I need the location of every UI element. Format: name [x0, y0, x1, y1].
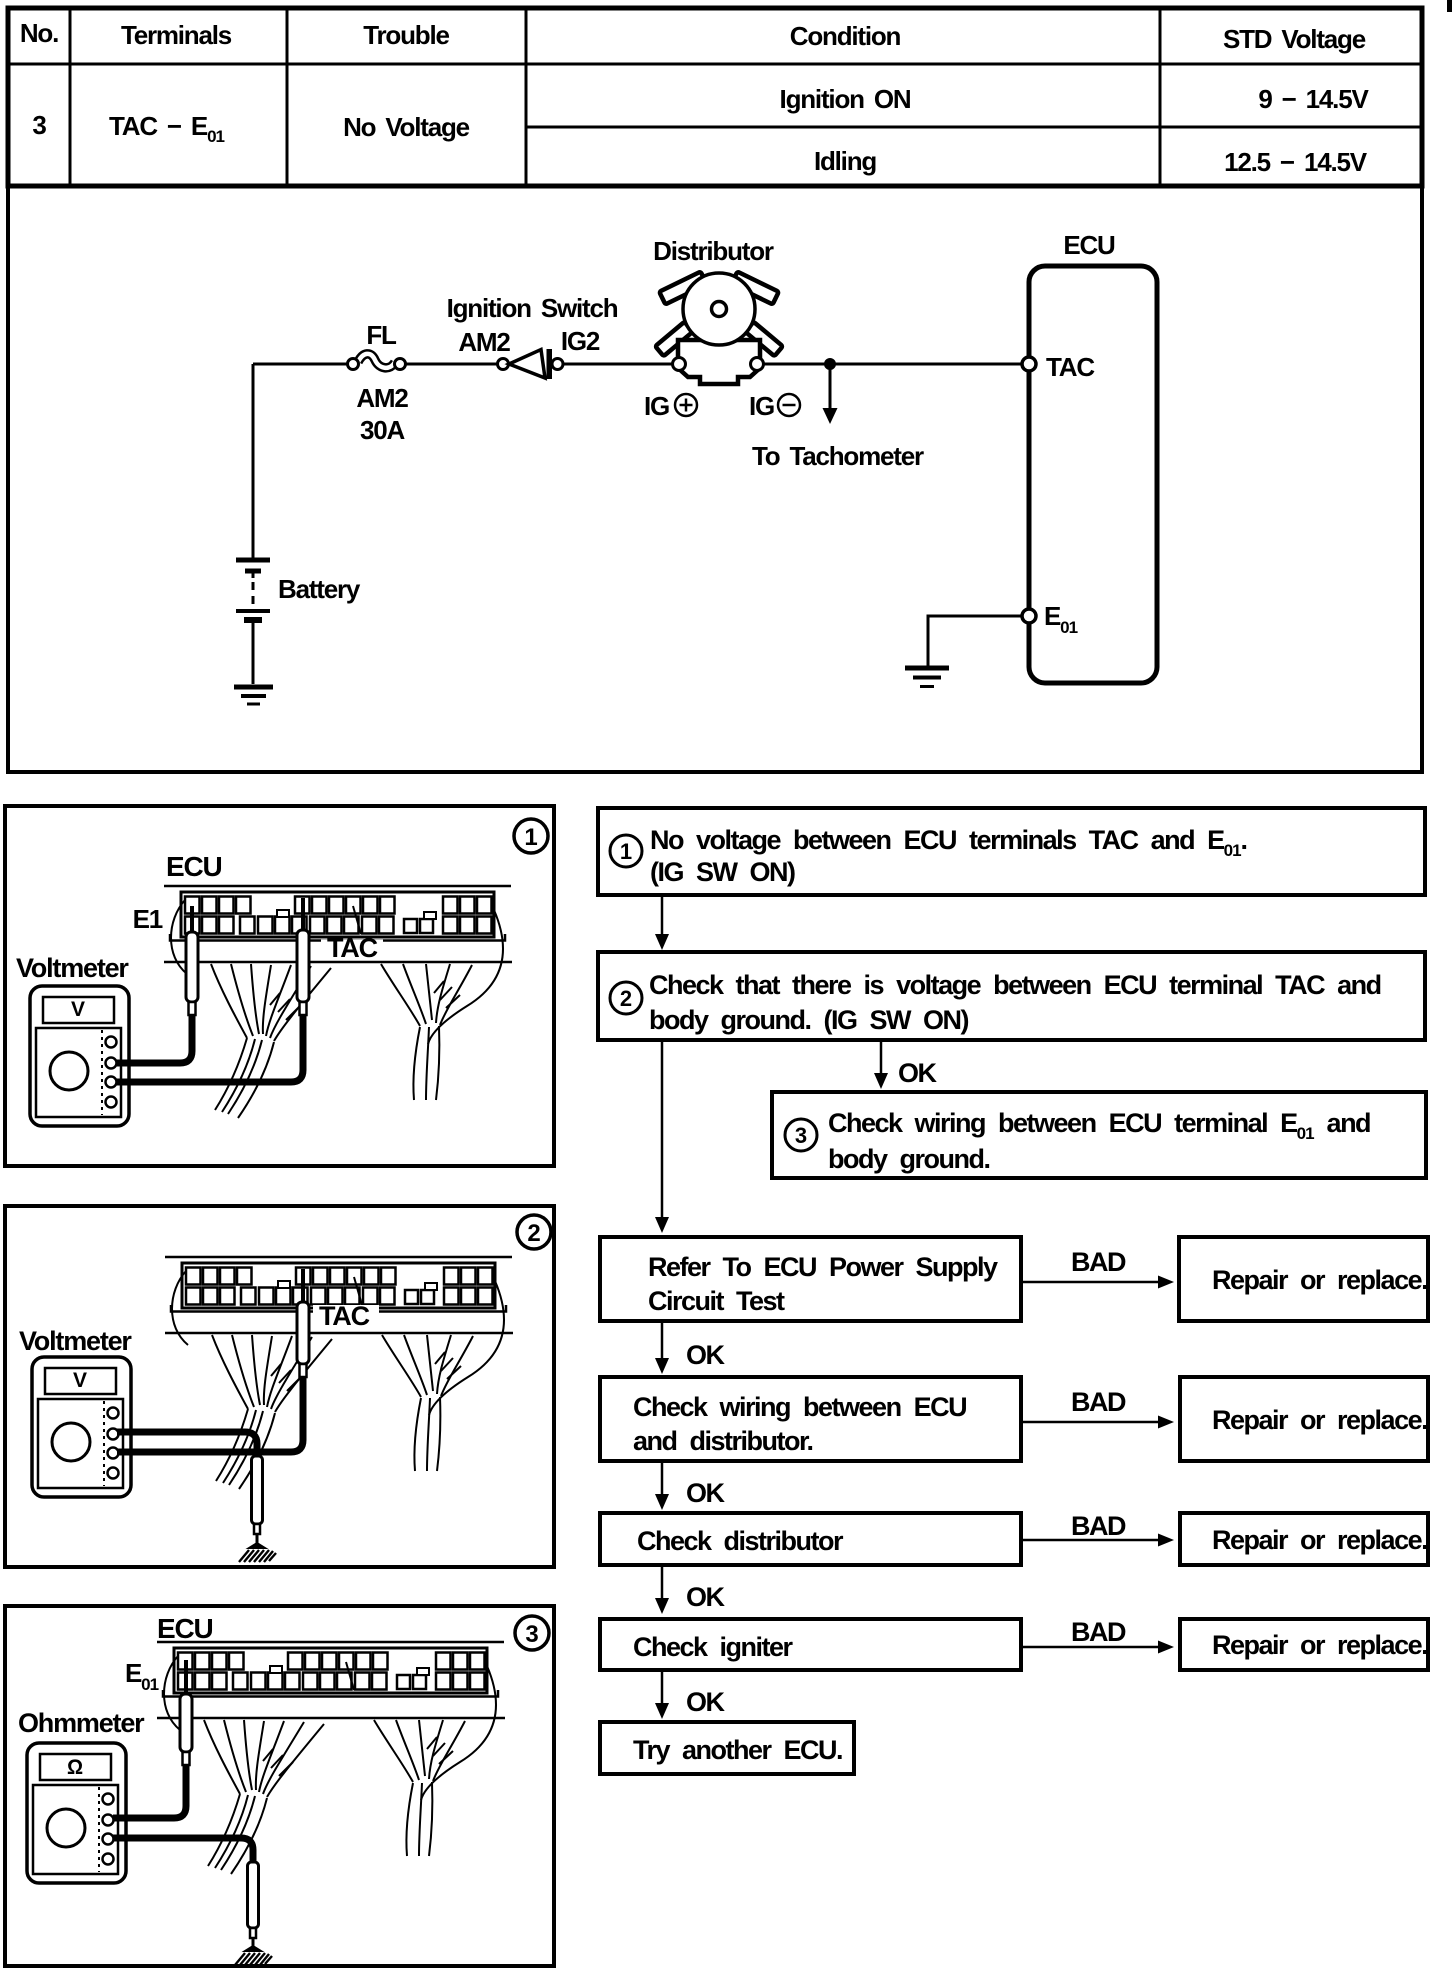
- svg-text:3: 3: [525, 1621, 538, 1648]
- flow box 4 refer: [600, 1237, 1021, 1321]
- circled 3: [515, 1616, 549, 1650]
- flow box 7: [600, 1619, 1021, 1670]
- svg-text:AM2: AM2: [356, 383, 408, 413]
- flow box 2: [598, 952, 1425, 1040]
- svg-text:IG: IG: [749, 391, 774, 421]
- terminal IG-: [751, 358, 764, 371]
- test lead TAC to voltmeter: [117, 1377, 303, 1452]
- page edge mark: [1447, 0, 1452, 12]
- BAD arrow 3: [1021, 1539, 1160, 1542]
- probe TAC: [301, 1269, 305, 1304]
- body ground: [239, 1543, 276, 1562]
- flow box 3: [772, 1092, 1426, 1178]
- arrow box2 to box3: [880, 1040, 883, 1075]
- panel 2 frame: [5, 1206, 554, 1567]
- wire distributor to ECU: [764, 363, 1023, 366]
- svg-text:Ω: Ω: [67, 1756, 83, 1779]
- wing upper-left: [659, 272, 706, 305]
- circled 1: [514, 819, 548, 853]
- svg-text:AM2: AM2: [458, 327, 510, 357]
- body ground: [235, 1946, 272, 1965]
- svg-text:BAD: BAD: [1071, 1247, 1126, 1277]
- svg-text:Repair or replace.: Repair or replace.: [1212, 1525, 1427, 1555]
- flow box 6: [600, 1513, 1021, 1565]
- circled 2: [517, 1215, 551, 1249]
- table outer border: [8, 8, 1422, 186]
- svg-text:IG2: IG2: [561, 326, 600, 356]
- svg-text:FL: FL: [366, 320, 397, 350]
- wire switch to distributor: [563, 363, 674, 366]
- svg-text:Check wiring between ECU termi: Check wiring between ECU terminal E01 an…: [828, 1108, 1370, 1143]
- svg-text:30A: 30A: [360, 415, 406, 445]
- ground probe: [252, 1456, 263, 1524]
- table header row line: [8, 63, 1422, 66]
- svg-text:OK: OK: [686, 1340, 726, 1370]
- svg-text:V: V: [71, 998, 85, 1021]
- arrow to tachometer: [829, 364, 832, 410]
- svg-text:BAD: BAD: [1071, 1511, 1126, 1541]
- ground battery: [234, 685, 273, 690]
- svg-text:Check wiring between ECU: Check wiring between ECU: [633, 1392, 966, 1422]
- label TAC: [321, 940, 383, 960]
- table column line 2: [286, 8, 289, 186]
- label TAC: [313, 1305, 379, 1326]
- probe TAC: [301, 898, 305, 932]
- repair box 4: [1180, 1619, 1428, 1670]
- svg-text:2: 2: [527, 1220, 540, 1247]
- ECU connector 3: [157, 1642, 505, 1874]
- panel 1 frame: [5, 806, 554, 1166]
- ECU connector 1: [164, 886, 512, 1118]
- panel 3 frame: [5, 1606, 554, 1966]
- svg-text:ECU: ECU: [1063, 230, 1115, 260]
- wire battery vertical: [252, 364, 255, 558]
- svg-text:Distributor: Distributor: [653, 236, 774, 266]
- svg-text:(IG SW ON): (IG SW ON): [650, 857, 795, 887]
- svg-text:OK: OK: [686, 1687, 726, 1717]
- svg-text:Voltmeter: Voltmeter: [19, 1326, 132, 1356]
- repair box 2: [1180, 1377, 1428, 1461]
- svg-text:Check that there is voltage be: Check that there is voltage between ECU …: [649, 970, 1381, 1000]
- wire battery to fuse: [253, 363, 347, 366]
- wire fuse to switch: [405, 363, 497, 366]
- flow box 5: [600, 1377, 1021, 1461]
- distributor cap: [683, 273, 755, 345]
- flow box 8: [600, 1722, 854, 1774]
- test lead ground probe: [117, 1432, 257, 1458]
- svg-text:IG: IG: [644, 391, 669, 421]
- ground ECU: [905, 666, 949, 671]
- svg-text:BAD: BAD: [1071, 1387, 1126, 1417]
- wing lower-right: [745, 322, 782, 356]
- flow box 1: [598, 808, 1425, 895]
- distributor body: [678, 340, 760, 384]
- svg-text:Check igniter: Check igniter: [633, 1632, 794, 1662]
- BAD arrow 4: [1021, 1646, 1160, 1649]
- BAD arrow 2: [1021, 1421, 1160, 1424]
- arrow box4 to box5: [661, 1321, 664, 1360]
- svg-text:Voltmeter: Voltmeter: [16, 953, 129, 983]
- svg-text:2: 2: [620, 986, 632, 1011]
- svg-text:Ignition Switch: Ignition Switch: [447, 293, 618, 323]
- svg-text:TAC: TAC: [319, 1301, 370, 1331]
- svg-text:Trouble: Trouble: [363, 20, 449, 50]
- table column line 3: [525, 8, 528, 186]
- table column line 4: [1159, 8, 1162, 186]
- svg-text:and distributor.: and distributor.: [633, 1426, 813, 1456]
- wing lower-left: [655, 322, 692, 356]
- svg-text:Check distributor: Check distributor: [637, 1526, 844, 1556]
- svg-text:3: 3: [32, 110, 46, 140]
- svg-text:Repair or replace.: Repair or replace.: [1212, 1265, 1427, 1295]
- arrow box2 to box4: [661, 1040, 664, 1219]
- arrow box7 to box8: [661, 1670, 664, 1705]
- arrow box6 to box7: [661, 1565, 664, 1600]
- test lead ground probe: [113, 1838, 253, 1862]
- svg-text:9 − 14.5V: 9 − 14.5V: [1258, 84, 1369, 114]
- svg-text:BAD: BAD: [1071, 1617, 1126, 1647]
- ground probe: [248, 1862, 259, 1928]
- svg-text:No.: No.: [20, 18, 58, 48]
- svg-text:E1: E1: [133, 904, 163, 934]
- svg-text:Repair or replace.: Repair or replace.: [1212, 1630, 1427, 1660]
- ECU connector 2: [165, 1257, 513, 1489]
- svg-text:Terminals: Terminals: [121, 20, 232, 50]
- svg-text:No Voltage: No Voltage: [343, 112, 470, 142]
- svg-text:body ground.: body ground.: [828, 1144, 989, 1174]
- svg-text:Ignition ON: Ignition ON: [780, 84, 911, 114]
- svg-text:V: V: [73, 1369, 87, 1392]
- svg-text:1: 1: [524, 824, 537, 851]
- svg-text:Refer To ECU Power Supply: Refer To ECU Power Supply: [648, 1252, 998, 1282]
- probe E1: [190, 906, 194, 934]
- svg-text:1: 1: [620, 839, 632, 864]
- svg-text:Try another ECU.: Try another ECU.: [633, 1735, 842, 1765]
- svg-text:TAC: TAC: [327, 933, 378, 963]
- svg-text:OK: OK: [898, 1058, 938, 1088]
- table column line 1: [69, 8, 72, 186]
- fusible link FL AM2 30A: [358, 354, 395, 368]
- test lead TAC to voltmeter: [116, 1015, 303, 1082]
- svg-text:OK: OK: [686, 1478, 726, 1508]
- arrow box5 to box6: [661, 1461, 664, 1496]
- svg-text:Idling: Idling: [814, 146, 876, 176]
- svg-text:Battery: Battery: [278, 574, 361, 604]
- svg-text:Ohmmeter: Ohmmeter: [18, 1708, 145, 1738]
- svg-text:Circuit Test: Circuit Test: [648, 1286, 785, 1316]
- terminal IG+: [673, 358, 686, 371]
- table condition sub-row line: [526, 126, 1422, 129]
- svg-text:TAC: TAC: [1046, 352, 1095, 382]
- svg-text:No voltage between ECU termina: No voltage between ECU terminals TAC and…: [650, 825, 1247, 860]
- svg-text:Condition: Condition: [790, 21, 901, 51]
- BAD arrow 1: [1021, 1281, 1160, 1284]
- terminal E01: [1022, 609, 1036, 623]
- wing upper-right: [731, 272, 778, 305]
- svg-text:ECU: ECU: [157, 1613, 213, 1644]
- svg-text:OK: OK: [686, 1582, 726, 1612]
- ground wire from E01: [928, 616, 1022, 666]
- ECU box: [1029, 266, 1157, 683]
- repair box 3: [1180, 1513, 1428, 1565]
- junction node: [825, 359, 836, 370]
- svg-text:3: 3: [795, 1123, 807, 1148]
- arrow box1 to box2: [661, 895, 664, 936]
- svg-text:Repair or replace.: Repair or replace.: [1212, 1405, 1427, 1435]
- schematic frame: [8, 186, 1422, 772]
- probe E01: [184, 1660, 188, 1696]
- svg-text:To Tachometer: To Tachometer: [752, 441, 924, 471]
- test lead E01 to ohmmeter: [113, 1765, 186, 1818]
- svg-text:ECU: ECU: [166, 851, 222, 882]
- svg-text:STD Voltage: STD Voltage: [1223, 24, 1366, 54]
- svg-text:12.5 − 14.5V: 12.5 − 14.5V: [1224, 147, 1368, 177]
- repair box 1: [1179, 1237, 1428, 1321]
- battery: [236, 558, 270, 563]
- test lead E1 to voltmeter: [116, 1015, 192, 1063]
- terminal TAC: [1022, 357, 1036, 371]
- svg-text:body ground. (IG SW ON): body ground. (IG SW ON): [649, 1005, 968, 1035]
